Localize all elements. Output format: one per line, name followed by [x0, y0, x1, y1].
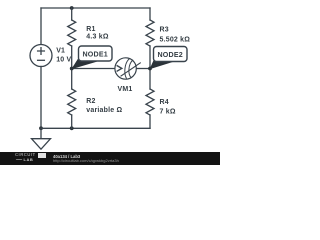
resistor R3: [146, 20, 154, 69]
junction: R2 bottom on bottom rail: [70, 126, 74, 130]
resistor R4: [146, 69, 154, 129]
svg-text:R3: R3: [160, 27, 169, 34]
svg-text:7 kΩ: 7 kΩ: [160, 108, 176, 115]
voltmeter VM1: [115, 58, 140, 79]
voltage source V1: [30, 45, 52, 67]
CircuitLab logo wordmark: [15, 153, 36, 157]
wire: node A to voltmeter left terminal: [72, 68, 115, 70]
node NODE1 flag: [71, 46, 112, 69]
wire: V1 top lead (top rail down to V1 plus terminal): [40, 8, 42, 45]
footer watermark bar: [0, 152, 220, 165]
resistor R1: [68, 8, 76, 69]
svg-text:10 V: 10 V: [56, 57, 71, 64]
svg-text:5.502 kΩ: 5.502 kΩ: [160, 37, 191, 44]
wire: bottom rail from ground junction to R4 branch: [41, 127, 150, 129]
resistor R2: [68, 69, 76, 129]
svg-text:R2: R2: [86, 98, 95, 105]
wire: V1 bottom lead down to bottom rail: [40, 67, 42, 129]
node NODE2 flag: [150, 47, 188, 70]
footer text: url line: [53, 159, 119, 163]
wire: voltmeter right terminal to node B: [136, 68, 150, 70]
wire: top rail from V1 branch to R3 branch: [41, 7, 150, 9]
junction: node A (R1/R2/voltmeter): [70, 67, 74, 71]
svg-text:4.3 kΩ: 4.3 kΩ: [86, 34, 109, 41]
wire: R3 top lead from top rail corner: [149, 8, 151, 20]
svg-text:NODE1: NODE1: [82, 50, 107, 58]
junction: node B (R3/R4/voltmeter): [148, 67, 152, 71]
svg-text:R4: R4: [160, 99, 169, 106]
svg-text:R1: R1: [86, 26, 95, 33]
svg-text:variable Ω: variable Ω: [86, 107, 122, 114]
wire: ground stem: [40, 128, 42, 138]
junction: V1 / ground / bottom rail: [39, 126, 43, 130]
svg-text:V1: V1: [56, 48, 65, 55]
ground: [32, 139, 51, 150]
footer text: title line: [53, 155, 80, 159]
junction: R1 top on top rail: [70, 6, 74, 10]
svg-text:NODE2: NODE2: [157, 51, 182, 59]
svg-text:VM1: VM1: [118, 86, 133, 93]
